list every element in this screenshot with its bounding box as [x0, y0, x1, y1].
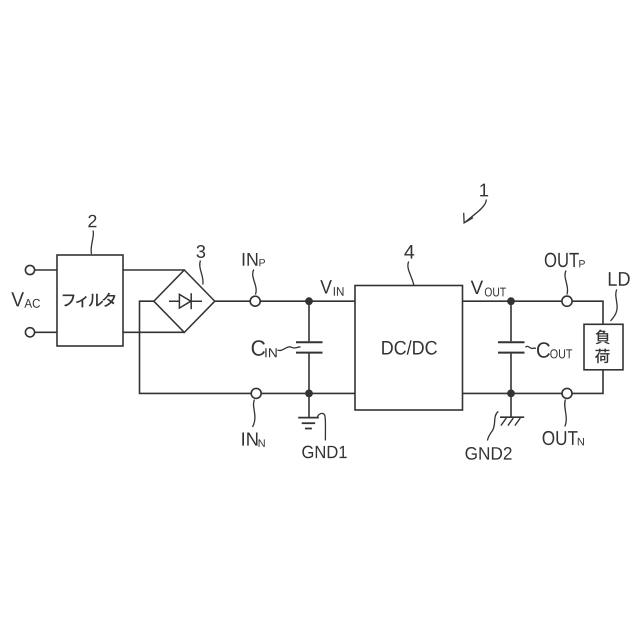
- wire: DC/DC to OUTP terminal: [463, 300, 563, 302]
- leader from LD to load box: [611, 290, 618, 322]
- terminal OUTN: [562, 388, 572, 398]
- ground GND1 symbol: [308, 393, 310, 417]
- terminal: AC input top: [25, 265, 34, 274]
- arrow for 1: [465, 200, 487, 223]
- wire: filter to bridge top vertex: [123, 269, 184, 271]
- wire: bridge right vertex to INP terminal: [215, 300, 250, 302]
- chassis ground GND2 symbol: [510, 393, 512, 417]
- capacitor CIN: [308, 301, 310, 341]
- leader line for 4: [408, 262, 414, 286]
- label VAC: [11, 292, 24, 306]
- wire: INN terminal to DC/DC: [261, 392, 355, 394]
- leader line for 2: [91, 231, 93, 255]
- diode inside bridge: [169, 300, 202, 302]
- terminal INP: [250, 296, 260, 306]
- leader for GND2: [487, 411, 498, 440]
- label VIN: [320, 280, 332, 293]
- label LD: [609, 272, 630, 286]
- reference numeral 3: [197, 245, 206, 258]
- leader line for 3: [200, 261, 203, 285]
- leader from OUTP label to terminal: [565, 271, 568, 295]
- wire: bridge left vertex down to bottom rail: [140, 301, 252, 393]
- wire: load to OUTN terminal: [572, 370, 603, 394]
- node: VIN junction: [305, 297, 313, 305]
- leader squiggle from capacitor to COUT label: [526, 346, 537, 348]
- node: CIN bottom junction: [305, 390, 313, 398]
- load block (負荷): [584, 324, 623, 370]
- terminal OUTP: [562, 296, 572, 306]
- leader squiggle from CIN to capacitor: [278, 347, 301, 351]
- capacitor COUT: [510, 301, 512, 341]
- terminal: AC input bottom: [25, 328, 34, 337]
- label OUTN: [543, 431, 578, 445]
- label VOUT: [471, 281, 483, 294]
- label GND1: [302, 446, 346, 459]
- node: COUT bottom junction: [507, 390, 515, 398]
- bridge rectifier 3 (diamond): [154, 270, 215, 332]
- label INP: [243, 253, 258, 266]
- label CIN: [252, 340, 265, 356]
- reference numeral 4: [404, 245, 414, 258]
- reference numeral 2: [88, 215, 96, 227]
- label INN: [242, 433, 257, 446]
- filter block 2: [57, 255, 123, 346]
- DC/DC converter block 4: [355, 286, 463, 411]
- label OUTP: [545, 253, 579, 268]
- wire: DC/DC to OUTN terminal: [463, 392, 563, 394]
- leader from INP label to terminal: [253, 270, 256, 295]
- wire: OUTP to load: [572, 301, 603, 324]
- label GND2: [465, 447, 511, 460]
- label filter (フィルタ): [63, 294, 75, 306]
- wire: VAC top terminal to filter: [35, 269, 57, 271]
- reference numeral 1: [480, 184, 488, 197]
- label COUT: [537, 342, 550, 358]
- wire: VAC bottom terminal to filter: [35, 331, 57, 333]
- leader from OUTN terminal to label: [565, 400, 567, 427]
- wire: filter to bridge bottom vertex: [123, 331, 184, 333]
- leader hook for GND1: [317, 413, 325, 440]
- terminal INN: [251, 388, 261, 398]
- leader from INN terminal to label: [253, 400, 255, 428]
- node: VOUT junction: [507, 297, 515, 305]
- wire: INP terminal to DC/DC: [260, 300, 355, 302]
